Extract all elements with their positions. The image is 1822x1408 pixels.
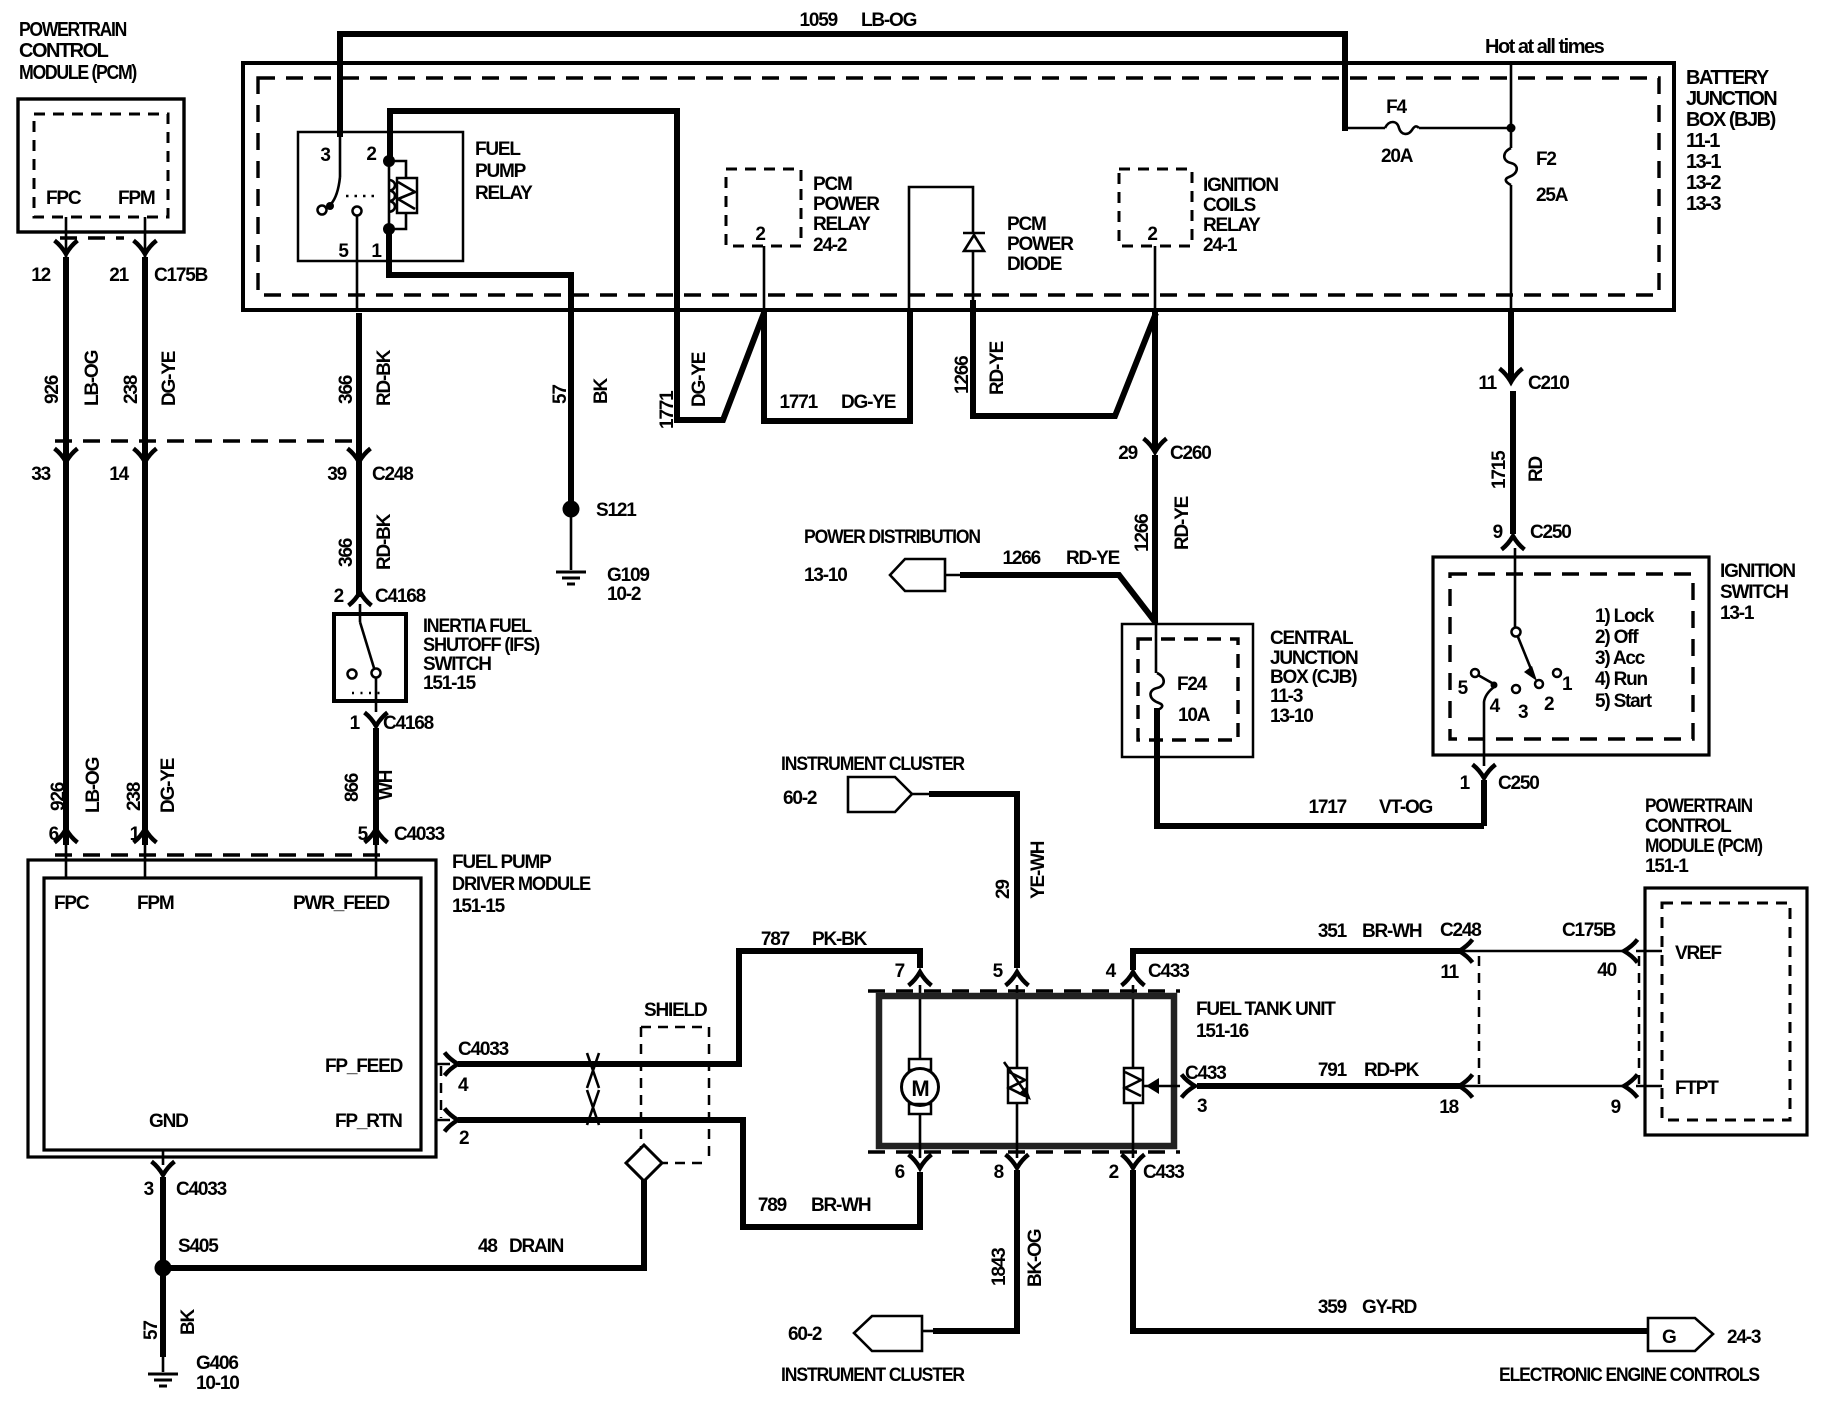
svg-text:24-3: 24-3 — [1727, 1327, 1761, 1348]
svg-text:DG-YE: DG-YE — [689, 352, 710, 407]
svg-text:57: 57 — [141, 1321, 162, 1340]
svg-text:C4033: C4033 — [176, 1179, 227, 1200]
svg-text:1266: 1266 — [1132, 514, 1153, 552]
svg-text:29: 29 — [993, 880, 1014, 899]
svg-text:24-1: 24-1 — [1203, 235, 1238, 256]
svg-text:RD-YE: RD-YE — [987, 341, 1008, 395]
svg-text:1: 1 — [350, 713, 361, 734]
svg-text:RD-BK: RD-BK — [374, 349, 395, 406]
svg-text:LB-OG: LB-OG — [861, 10, 917, 31]
svg-text:3: 3 — [144, 1179, 154, 1200]
svg-text:5: 5 — [993, 961, 1004, 982]
svg-text:IGNITION: IGNITION — [1203, 175, 1278, 196]
svg-text:60-2: 60-2 — [788, 1324, 822, 1345]
svg-text:12: 12 — [31, 265, 50, 286]
svg-text:C260: C260 — [1170, 443, 1211, 464]
svg-text:F24: F24 — [1177, 674, 1208, 695]
svg-text:S121: S121 — [596, 500, 637, 521]
svg-text:PCM: PCM — [813, 174, 852, 195]
svg-text:13-10: 13-10 — [804, 565, 847, 586]
svg-text:GND: GND — [149, 1111, 188, 1132]
svg-text:PUMP: PUMP — [475, 161, 527, 182]
svg-text:3: 3 — [1197, 1096, 1207, 1117]
svg-text:3) Acc: 3) Acc — [1595, 648, 1646, 669]
svg-text:JUNCTION: JUNCTION — [1686, 88, 1777, 110]
svg-text:PK-BK: PK-BK — [812, 929, 868, 950]
svg-text:1715: 1715 — [1489, 450, 1510, 489]
svg-text:1: 1 — [130, 824, 141, 845]
svg-text:4: 4 — [1490, 696, 1501, 717]
svg-text:5: 5 — [338, 241, 349, 262]
svg-text:SHUTOFF (IFS): SHUTOFF (IFS) — [423, 635, 540, 656]
svg-text:787: 787 — [761, 929, 790, 950]
svg-text:351: 351 — [1318, 921, 1348, 942]
svg-text:PWR_FEED: PWR_FEED — [293, 893, 389, 914]
svg-text:151-16: 151-16 — [1196, 1021, 1249, 1042]
svg-text:DG-YE: DG-YE — [158, 758, 179, 813]
svg-text:C250: C250 — [1498, 773, 1539, 794]
svg-text:BR-WH: BR-WH — [1362, 921, 1422, 942]
svg-text:13-3: 13-3 — [1686, 193, 1721, 215]
svg-text:RELAY: RELAY — [1203, 215, 1261, 236]
svg-text:M: M — [911, 1076, 928, 1101]
svg-text:C250: C250 — [1530, 522, 1571, 543]
svg-text:POWER DISTRIBUTION: POWER DISTRIBUTION — [804, 527, 980, 548]
svg-text:C4033: C4033 — [458, 1039, 509, 1060]
svg-text:13-1: 13-1 — [1686, 151, 1721, 173]
svg-text:151-15: 151-15 — [423, 673, 477, 694]
svg-text:29: 29 — [1118, 443, 1137, 464]
svg-text:C4033: C4033 — [394, 824, 445, 845]
svg-text:3: 3 — [320, 145, 330, 166]
svg-text:C433: C433 — [1185, 1063, 1226, 1084]
svg-text:39: 39 — [327, 464, 346, 485]
svg-text:SWITCH: SWITCH — [1720, 582, 1788, 603]
svg-text:G109: G109 — [607, 565, 649, 586]
svg-text:13-10: 13-10 — [1270, 706, 1313, 727]
svg-text:RD: RD — [1526, 456, 1547, 482]
svg-text:LB-OG: LB-OG — [83, 757, 104, 813]
svg-text:11: 11 — [1440, 962, 1459, 983]
svg-text:2) Off: 2) Off — [1595, 627, 1639, 648]
svg-text:33: 33 — [31, 464, 50, 485]
svg-text:20A: 20A — [1381, 146, 1414, 167]
svg-text:1266: 1266 — [1003, 548, 1041, 569]
svg-text:4: 4 — [458, 1075, 469, 1096]
svg-text:2: 2 — [366, 144, 376, 165]
svg-text:3: 3 — [1518, 702, 1528, 723]
svg-text:FUEL: FUEL — [475, 139, 521, 160]
svg-text:LB-OG: LB-OG — [82, 350, 103, 406]
svg-text:DIODE: DIODE — [1007, 254, 1062, 275]
svg-text:Hot at all times: Hot at all times — [1485, 36, 1605, 58]
svg-text:S405: S405 — [178, 1236, 219, 1257]
svg-text:10-10: 10-10 — [196, 1373, 239, 1394]
svg-text:BOX (BJB): BOX (BJB) — [1686, 109, 1776, 131]
svg-text:1717: 1717 — [1309, 797, 1347, 818]
svg-text:4: 4 — [1106, 961, 1117, 982]
svg-text:G: G — [1662, 1327, 1677, 1348]
svg-text:C4168: C4168 — [383, 713, 434, 734]
svg-text:COILS: COILS — [1203, 195, 1256, 216]
svg-text:57: 57 — [550, 385, 571, 404]
svg-text:1) Lock: 1) Lock — [1595, 606, 1655, 627]
svg-text:RD-YE: RD-YE — [1172, 496, 1193, 550]
svg-text:BK: BK — [591, 377, 612, 404]
svg-text:926: 926 — [48, 782, 69, 811]
svg-text:INSTRUMENT CLUSTER: INSTRUMENT CLUSTER — [781, 754, 965, 775]
svg-text:JUNCTION: JUNCTION — [1270, 648, 1358, 669]
svg-text:6: 6 — [895, 1162, 905, 1183]
svg-text:2: 2 — [334, 586, 344, 607]
svg-text:MODULE (PCM): MODULE (PCM) — [1645, 836, 1763, 857]
svg-text:366: 366 — [336, 375, 357, 404]
svg-text:5: 5 — [358, 824, 369, 845]
svg-text:FTPT: FTPT — [1675, 1078, 1719, 1099]
svg-text:BOX (CJB): BOX (CJB) — [1270, 667, 1357, 688]
svg-text:1059: 1059 — [800, 10, 838, 31]
svg-text:366: 366 — [336, 538, 357, 567]
svg-text:1: 1 — [1562, 674, 1573, 695]
svg-text:FPC: FPC — [46, 188, 82, 209]
svg-text:DRAIN: DRAIN — [509, 1236, 564, 1257]
svg-text:926: 926 — [42, 375, 63, 404]
svg-text:10A: 10A — [1178, 705, 1211, 726]
svg-text:2: 2 — [1544, 694, 1554, 715]
svg-text:2: 2 — [755, 224, 765, 245]
svg-text:IGNITION: IGNITION — [1720, 561, 1795, 582]
svg-text:789: 789 — [758, 1195, 787, 1216]
svg-text:FUEL TANK UNIT: FUEL TANK UNIT — [1196, 999, 1336, 1020]
svg-text:C4168: C4168 — [375, 586, 426, 607]
svg-text:60-2: 60-2 — [783, 788, 817, 809]
svg-text:1266: 1266 — [952, 356, 973, 394]
svg-text:BK: BK — [178, 1308, 199, 1335]
svg-text:11: 11 — [1478, 373, 1497, 394]
svg-text:RELAY: RELAY — [475, 183, 533, 204]
svg-text:13-2: 13-2 — [1686, 172, 1721, 194]
svg-text:FUEL PUMP: FUEL PUMP — [452, 852, 552, 873]
svg-text:9: 9 — [1611, 1097, 1621, 1118]
svg-text:BR-WH: BR-WH — [811, 1195, 871, 1216]
svg-text:48: 48 — [478, 1236, 497, 1257]
svg-text:DG-YE: DG-YE — [159, 351, 180, 406]
svg-text:2: 2 — [459, 1128, 469, 1149]
svg-text:RD-BK: RD-BK — [374, 513, 395, 570]
svg-text:151-15: 151-15 — [452, 896, 506, 917]
svg-text:21: 21 — [109, 265, 129, 286]
svg-text:SWITCH: SWITCH — [423, 654, 491, 675]
svg-text:C175B: C175B — [154, 265, 208, 286]
svg-text:238: 238 — [121, 375, 142, 404]
svg-text:5) Start: 5) Start — [1595, 691, 1653, 712]
svg-text:YE-WH: YE-WH — [1028, 841, 1049, 899]
svg-text:11-1: 11-1 — [1686, 130, 1720, 152]
svg-text:MODULE (PCM): MODULE (PCM) — [19, 62, 137, 84]
svg-text:INERTIA FUEL: INERTIA FUEL — [423, 616, 532, 637]
svg-text:POWER: POWER — [1007, 234, 1074, 255]
svg-text:5: 5 — [1458, 678, 1469, 699]
svg-text:DG-YE: DG-YE — [841, 392, 896, 413]
svg-text:C175B: C175B — [1562, 920, 1616, 941]
svg-text:7: 7 — [895, 961, 905, 982]
svg-text:RD-PK: RD-PK — [1364, 1060, 1420, 1081]
svg-text:BATTERY: BATTERY — [1686, 67, 1770, 89]
svg-text:F4: F4 — [1386, 97, 1407, 118]
svg-text:1771: 1771 — [780, 392, 819, 413]
svg-text:9: 9 — [1493, 522, 1503, 543]
svg-text:40: 40 — [1597, 960, 1616, 981]
svg-text:11-3: 11-3 — [1270, 686, 1303, 707]
svg-text:2: 2 — [1147, 224, 1157, 245]
svg-text:2: 2 — [1109, 1162, 1119, 1183]
svg-text:INSTRUMENT CLUSTER: INSTRUMENT CLUSTER — [781, 1365, 965, 1386]
svg-text:1: 1 — [1460, 773, 1471, 794]
svg-text:8: 8 — [994, 1162, 1004, 1183]
svg-text:SHIELD: SHIELD — [644, 1000, 707, 1021]
svg-text:CONTROL: CONTROL — [1645, 816, 1732, 837]
svg-text:RD-YE: RD-YE — [1066, 548, 1120, 569]
svg-text:RELAY: RELAY — [813, 214, 871, 235]
svg-text:BK-OG: BK-OG — [1025, 1229, 1046, 1287]
svg-text:CENTRAL: CENTRAL — [1270, 628, 1354, 649]
svg-text:PCM: PCM — [1007, 214, 1046, 235]
svg-text:151-1: 151-1 — [1645, 856, 1689, 877]
svg-text:18: 18 — [1439, 1097, 1458, 1118]
svg-text:13-1: 13-1 — [1720, 603, 1755, 624]
svg-text:F2: F2 — [1536, 149, 1556, 170]
svg-text:4) Run: 4) Run — [1595, 669, 1648, 690]
svg-text:866: 866 — [342, 773, 363, 802]
svg-text:C433: C433 — [1148, 961, 1189, 982]
svg-text:C248: C248 — [1440, 920, 1481, 941]
svg-text:POWERTRAIN: POWERTRAIN — [19, 19, 127, 41]
svg-text:FP_FEED: FP_FEED — [325, 1056, 403, 1077]
svg-text:POWERTRAIN: POWERTRAIN — [1645, 796, 1752, 817]
svg-text:FP_RTN: FP_RTN — [335, 1111, 402, 1132]
svg-text:FPC: FPC — [54, 893, 90, 914]
svg-text:10-2: 10-2 — [607, 584, 641, 605]
svg-text:VREF: VREF — [1675, 943, 1721, 964]
svg-text:ELECTRONIC ENGINE CONTROLS: ELECTRONIC ENGINE CONTROLS — [1499, 1365, 1759, 1386]
svg-text:G406: G406 — [196, 1353, 238, 1374]
svg-text:WH: WH — [376, 770, 397, 800]
svg-text:CONTROL: CONTROL — [19, 40, 109, 62]
svg-text:1771: 1771 — [657, 390, 678, 429]
svg-text:POWER: POWER — [813, 194, 880, 215]
svg-text:14: 14 — [109, 464, 129, 485]
svg-text:1: 1 — [371, 241, 382, 262]
svg-text:1843: 1843 — [989, 1248, 1010, 1286]
svg-text:GY-RD: GY-RD — [1362, 1297, 1417, 1318]
svg-text:FPM: FPM — [137, 893, 174, 914]
svg-text:791: 791 — [1318, 1060, 1348, 1081]
svg-text:DRIVER MODULE: DRIVER MODULE — [452, 874, 591, 895]
svg-text:C248: C248 — [372, 464, 413, 485]
svg-text:C433: C433 — [1143, 1162, 1184, 1183]
svg-text:6: 6 — [49, 824, 59, 845]
svg-text:24-2: 24-2 — [813, 235, 847, 256]
svg-text:25A: 25A — [1536, 185, 1569, 206]
svg-text:VT-OG: VT-OG — [1379, 797, 1433, 818]
svg-text:FPM: FPM — [118, 188, 155, 209]
svg-text:238: 238 — [124, 782, 145, 811]
svg-text:359: 359 — [1318, 1297, 1347, 1318]
svg-text:C210: C210 — [1528, 373, 1569, 394]
